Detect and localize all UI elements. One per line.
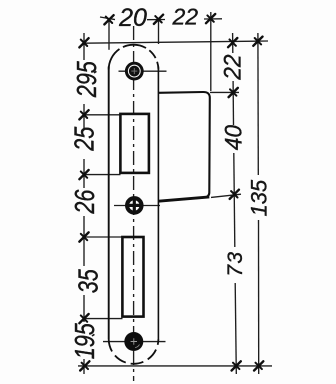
svg-text:20: 20 bbox=[118, 4, 147, 32]
svg-text:73: 73 bbox=[224, 251, 247, 277]
svg-text:295: 295 bbox=[73, 61, 103, 98]
svg-text:22: 22 bbox=[172, 3, 199, 29]
svg-text:26: 26 bbox=[70, 189, 100, 214]
svg-text:22: 22 bbox=[219, 54, 246, 80]
svg-text:40: 40 bbox=[220, 125, 247, 150]
svg-text:195: 195 bbox=[71, 323, 101, 359]
svg-text:35: 35 bbox=[74, 269, 104, 293]
svg-text:135: 135 bbox=[247, 179, 272, 216]
svg-text:25: 25 bbox=[70, 127, 100, 152]
